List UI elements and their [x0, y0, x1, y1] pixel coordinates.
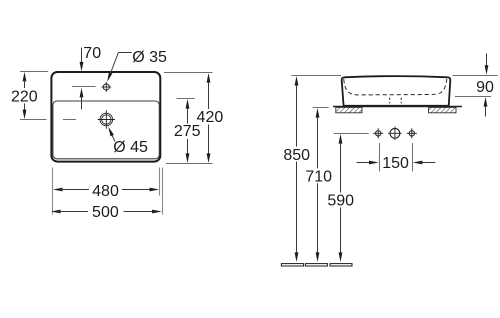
dimension 220: [20, 72, 76, 120]
svg-text:220: 220: [11, 89, 38, 106]
wall bracket hatch left: [336, 107, 362, 112]
dimension 480: [53, 188, 159, 192]
svg-text:500: 500: [92, 204, 119, 221]
bottom extension lines: [53, 168, 163, 215]
floor marks: [281, 264, 352, 266]
basin body: [342, 76, 451, 106]
svg-text:150: 150: [382, 155, 409, 172]
svg-text:275: 275: [174, 123, 201, 140]
dimension 500: [51, 210, 162, 214]
svg-text:710: 710: [305, 168, 332, 185]
basin outer outline: [51, 72, 160, 162]
wall bracket hatch right: [429, 107, 457, 112]
dimension 710: [313, 108, 329, 263]
svg-text:90: 90: [476, 79, 494, 96]
svg-text:Ø 45: Ø 45: [113, 139, 148, 156]
tap hole: [101, 82, 111, 92]
dimension 275: [177, 99, 195, 164]
mounting line: [333, 106, 462, 108]
dimension 90: [453, 54, 498, 117]
dimension 70: [72, 48, 96, 110]
drain hole: [98, 110, 115, 129]
dimension 850: [291, 76, 341, 263]
svg-text:480: 480: [92, 183, 119, 200]
fixing holes: [373, 127, 417, 140]
svg-text:Ø 35: Ø 35: [132, 49, 167, 66]
drain dashes: [390, 98, 402, 104]
dimension 420: [164, 73, 213, 164]
label Ø 45 leader: [108, 127, 115, 142]
svg-text:590: 590: [327, 193, 354, 210]
dimension 150: [357, 143, 436, 172]
svg-text:850: 850: [283, 147, 310, 164]
basin inner rim: [53, 101, 159, 159]
svg-text:70: 70: [83, 45, 101, 62]
bowl dashed curve: [344, 79, 447, 95]
label Ø 35 leader: [107, 53, 132, 82]
dimension 590: [334, 134, 369, 263]
